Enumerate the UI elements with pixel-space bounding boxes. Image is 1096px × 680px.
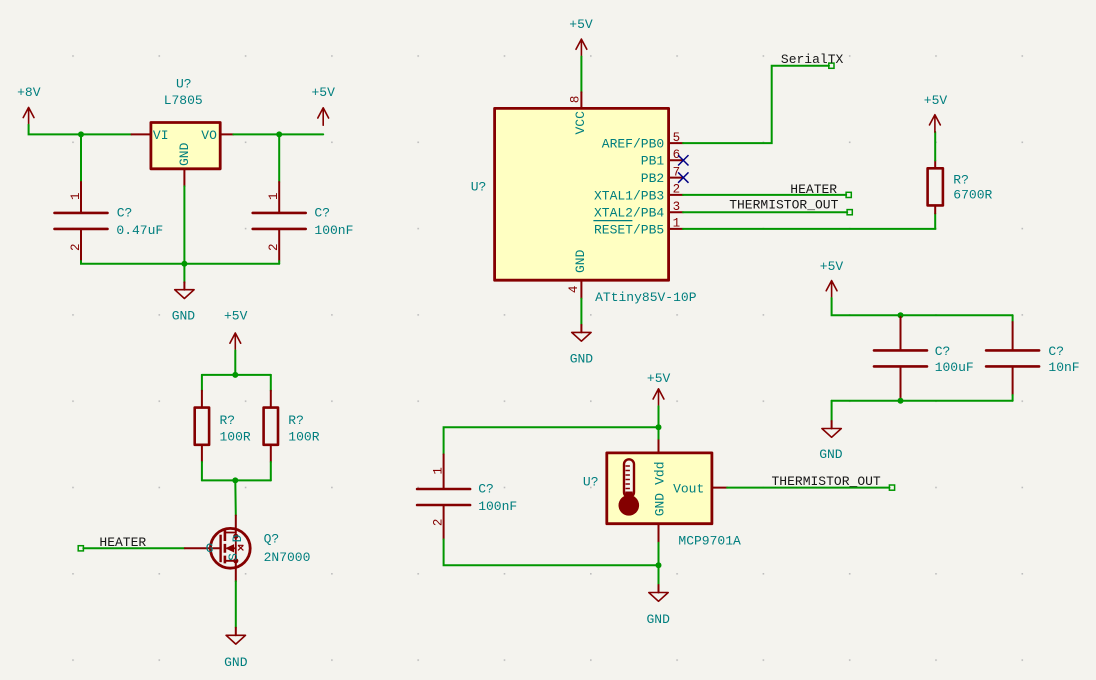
- pin Vdd of U? MCP9701A: [658, 439, 660, 453]
- junction resistor top rail: [232, 372, 238, 378]
- svg-text:PB2: PB2: [641, 171, 664, 186]
- wire R? to +5V: [934, 132, 936, 161]
- svg-text:GND: GND: [177, 142, 192, 166]
- svg-text:100uF: 100uF: [935, 360, 974, 375]
- svg-text:AREF/PB0: AREF/PB0: [602, 137, 664, 152]
- svg-text:2N7000: 2N7000: [264, 550, 311, 565]
- svg-text:VI: VI: [153, 128, 169, 143]
- junction Vdd node: [656, 424, 662, 430]
- wire C2 bottom to rail: [278, 261, 280, 264]
- capacitor C2 bottom lead: [278, 230, 280, 261]
- power +5V (sensor): [647, 371, 671, 406]
- svg-text:L7805: L7805: [164, 93, 203, 108]
- svg-text:VCC: VCC: [573, 111, 588, 135]
- resistor R3 top lead: [934, 161, 936, 169]
- capacitor C? 100nF plates: [253, 213, 306, 229]
- svg-text:3: 3: [673, 200, 681, 214]
- wire +8V to U? VI: [29, 125, 132, 135]
- wire to R? left top: [201, 375, 203, 391]
- svg-text:10nF: 10nF: [1048, 360, 1079, 375]
- wire U? GND down to rail: [183, 186, 185, 283]
- wire C? bottom to GND rail: [444, 539, 659, 565]
- wire +5V to resistor rail: [234, 350, 236, 375]
- pin source of Q?: [235, 562, 237, 581]
- svg-text:R?: R?: [288, 413, 304, 428]
- svg-text:XTAL1/PB3: XTAL1/PB3: [594, 188, 664, 203]
- svg-text:5: 5: [673, 131, 681, 145]
- wire rail to Q? drain: [234, 480, 237, 515]
- pin 4 GND of U? ATtiny: [580, 280, 582, 298]
- capacitor C? 100uF plates: [874, 350, 927, 366]
- capacitor C3 bottom lead: [900, 368, 902, 399]
- open end HEATER: [846, 192, 851, 197]
- svg-text:+5V: +5V: [924, 93, 948, 108]
- svg-text:PB1: PB1: [641, 154, 665, 169]
- svg-text:2: 2: [673, 183, 681, 197]
- thermometer icon of U? MCP9701A: [619, 459, 640, 515]
- ground GND (heater): [224, 628, 248, 670]
- pin GND of U? MCP9701A: [658, 524, 660, 543]
- resistor R? 100R (right) body: [264, 408, 278, 445]
- svg-text:Vout: Vout: [673, 481, 704, 496]
- svg-text:THERMISTOR_OUT: THERMISTOR_OUT: [772, 474, 881, 489]
- svg-text:+5V: +5V: [647, 371, 671, 386]
- ground GND (MCU): [570, 325, 594, 367]
- svg-text:+8V: +8V: [17, 85, 41, 100]
- svg-text:8: 8: [569, 96, 583, 104]
- wire THERMISTOR_OUT (sensor): [727, 487, 889, 489]
- svg-text:GND: GND: [653, 493, 668, 517]
- resistor R? 100R (left) body: [195, 408, 209, 445]
- wire HEATER (right): [683, 194, 846, 196]
- wire +5V to Vdd node: [658, 406, 660, 427]
- capacitor C3 top lead: [900, 317, 902, 349]
- open end HEATER stub: [78, 546, 83, 551]
- svg-text:100R: 100R: [220, 429, 251, 444]
- wire rail to C4 top: [1012, 315, 1014, 322]
- no-connect X on PB1: [678, 155, 688, 165]
- svg-text:+5V: +5V: [820, 259, 844, 274]
- ground GND (decoupling): [819, 421, 843, 462]
- wire VIN junction down to C?: [80, 134, 82, 182]
- junction C? 100uF bottom: [898, 398, 904, 404]
- resistor R? 6700R body: [928, 168, 943, 205]
- svg-text:+5V: +5V: [312, 85, 336, 100]
- wire junction to Vdd pin: [658, 427, 660, 438]
- svg-text:D: D: [230, 534, 245, 542]
- junction node +5V / C? top: [276, 131, 282, 137]
- svg-text:100R: 100R: [288, 429, 319, 444]
- svg-text:VO: VO: [201, 128, 217, 143]
- capacitor C? 0.47uF plates: [55, 213, 108, 229]
- pin gate of Q?: [185, 547, 220, 549]
- svg-text:U?: U?: [176, 76, 192, 91]
- wire Vdd node to C? top: [444, 427, 659, 454]
- svg-text:U?: U?: [471, 179, 487, 194]
- junction C? 100uF top: [898, 312, 904, 318]
- open end THERMISTOR_OUT: [847, 210, 852, 215]
- svg-text:1: 1: [69, 193, 83, 201]
- capacitor C4 top lead: [1012, 322, 1014, 349]
- no-connect X on PB2: [678, 172, 688, 182]
- svg-text:U?: U?: [583, 474, 599, 489]
- wire THERMISTOR_OUT (right): [683, 211, 847, 213]
- svg-text:GND: GND: [819, 447, 843, 462]
- svg-text:MCP9701A: MCP9701A: [678, 534, 741, 549]
- pin 1 VI of U? L7805: [132, 133, 151, 135]
- svg-text:SerialTX: SerialTX: [781, 52, 844, 67]
- wire R1 bottom to rail: [201, 462, 203, 480]
- svg-text:+5V: +5V: [569, 17, 593, 32]
- svg-text:GND: GND: [172, 309, 196, 324]
- svg-text:G: G: [206, 541, 214, 556]
- wire SerialTX: [683, 66, 829, 143]
- junction node VIN / C? top: [78, 131, 84, 137]
- transistor Q? 2N7000 body: [210, 528, 250, 568]
- ground GND (sensor): [647, 585, 671, 627]
- svg-text:THERMISTOR_OUT: THERMISTOR_OUT: [729, 198, 838, 213]
- pin 5 stub (AREF/PB0): [669, 142, 683, 144]
- pin 3 stub (XTAL2/PB4): [669, 211, 683, 213]
- open end THERMISTOR_OUT (sensor): [889, 485, 894, 490]
- pin Vout of U? MCP9701A: [712, 487, 727, 489]
- wire resistor bottom rail: [202, 479, 271, 481]
- pin 2 stub (XTAL1/PB3): [669, 194, 683, 196]
- resistor R1 top lead: [201, 391, 203, 408]
- wire resistor top rail: [202, 374, 271, 376]
- capacitor C1 top lead: [80, 182, 82, 212]
- power +5V (heater): [224, 309, 248, 351]
- resistor R1 bottom lead: [201, 445, 203, 462]
- pin 6 stub (PB1): [669, 159, 683, 161]
- open end SerialTX: [829, 63, 834, 68]
- capacitor C4 bottom lead: [1012, 368, 1014, 395]
- wire +5V top rail (decoupling): [832, 298, 1013, 315]
- power +5V (regulator output): [312, 85, 336, 125]
- power +5V (MCU): [569, 17, 593, 57]
- junction ground rail / U? GND: [181, 261, 187, 267]
- pin 7 stub (PB2): [669, 177, 683, 179]
- resistor R3 bottom lead: [934, 205, 936, 213]
- svg-text:100nF: 100nF: [478, 499, 517, 514]
- svg-text:Vdd: Vdd: [653, 461, 668, 484]
- wire +5V to VCC pin: [580, 57, 582, 93]
- wire rail down to GND symbol: [658, 565, 660, 585]
- capacitor C? 10nF plates: [986, 350, 1039, 366]
- MCU U? ATtiny85V-10P body: [495, 108, 669, 280]
- sensor U? MCP9701A body: [607, 453, 712, 524]
- wire R2 bottom to rail: [270, 462, 272, 480]
- svg-text:C?: C?: [935, 344, 951, 359]
- capacitor C5 bottom lead: [443, 506, 445, 539]
- wire GND pin to rail: [658, 543, 660, 565]
- junction resistor bottom rail: [232, 477, 238, 483]
- pin 3 VO of U? L7805: [220, 133, 233, 135]
- capacitor C? 100nF (sensor) plates: [417, 489, 470, 505]
- resistor R2 top lead: [270, 391, 272, 408]
- wire GND bottom rail (decoupling): [832, 400, 1013, 402]
- svg-text:4: 4: [567, 286, 581, 294]
- svg-text:HEATER: HEATER: [790, 182, 837, 197]
- svg-text:XTAL2/PB4: XTAL2/PB4: [594, 206, 664, 221]
- pin 2 GND of U? L7805: [183, 170, 185, 186]
- wire +5V junction down to C?: [278, 134, 280, 182]
- capacitor C2 top lead: [278, 182, 280, 212]
- wire C4 bottom to rail: [1012, 395, 1014, 401]
- svg-text:C?: C?: [1048, 344, 1064, 359]
- svg-text:1: 1: [267, 193, 281, 201]
- power +5V (pullup): [924, 93, 948, 132]
- svg-text:0.47uF: 0.47uF: [116, 223, 163, 238]
- ground GND (regulator): [172, 282, 196, 323]
- wire HEATER to gate: [83, 547, 184, 549]
- regulator U? L7805 body: [151, 123, 220, 169]
- svg-text:6700R: 6700R: [953, 188, 992, 203]
- junction sensor GND rail: [656, 562, 662, 568]
- svg-text:C?: C?: [117, 206, 133, 221]
- svg-text:R?: R?: [953, 172, 969, 187]
- resistor R2 bottom lead: [270, 445, 272, 462]
- pin 1 stub (RESET/PB5): [669, 228, 683, 230]
- wire GND pin down: [580, 299, 582, 325]
- svg-text:GND: GND: [647, 612, 671, 627]
- power +8V: [17, 85, 41, 125]
- svg-text:ATtiny85V-10P: ATtiny85V-10P: [595, 290, 697, 305]
- svg-text:+5V: +5V: [224, 309, 248, 324]
- svg-text:RESET/PB5: RESET/PB5: [594, 222, 664, 237]
- svg-text:1: 1: [673, 217, 681, 231]
- wire RESET to R? pullup: [683, 213, 935, 229]
- wire to R? right top: [270, 375, 272, 391]
- svg-text:GND: GND: [224, 655, 248, 670]
- svg-text:100nF: 100nF: [314, 223, 353, 238]
- pin drain of Q?: [235, 516, 237, 533]
- svg-text:C?: C?: [478, 482, 494, 497]
- wire VO to +5V: [233, 133, 323, 135]
- power +5V (decoupling): [820, 259, 844, 298]
- wire source to GND: [235, 581, 237, 627]
- svg-text:1: 1: [432, 467, 446, 475]
- wire ground rail (regulator): [81, 261, 279, 264]
- svg-text:S: S: [226, 553, 241, 561]
- pin 8 VCC of U? ATtiny: [580, 92, 582, 108]
- capacitor C? bottom lead: [80, 230, 82, 261]
- svg-text:GND: GND: [570, 351, 594, 366]
- wire rail down to GND: [831, 401, 833, 421]
- svg-text:GND: GND: [573, 249, 588, 273]
- svg-text:R?: R?: [220, 413, 236, 428]
- svg-text:Q?: Q?: [264, 532, 280, 547]
- svg-text:C?: C?: [314, 206, 330, 221]
- capacitor C5 top lead: [443, 454, 445, 487]
